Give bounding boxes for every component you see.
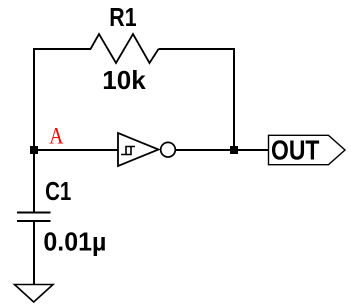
- wire: capacitor bottom plate down to ground: [33, 221, 35, 285]
- port flag OUT (pentagon outline): [269, 135, 346, 164]
- value 0.01µ: [43, 228, 106, 257]
- wire: top horizontal left of resistor: [33, 48, 91, 50]
- label C1: [45, 177, 71, 206]
- resistor R1 (zigzag body): [91, 34, 159, 63]
- label R1: [109, 3, 136, 33]
- junction: node A: [30, 146, 38, 154]
- svg-text:C1: C1: [45, 177, 71, 206]
- node A label: [49, 123, 64, 149]
- wire: bubble to output node and on to OUT flag: [176, 149, 270, 151]
- wire: right vertical (top corner down to output node): [233, 48, 235, 150]
- wire: node A down to capacitor top plate: [33, 150, 35, 213]
- wire: node A to inverter input: [34, 149, 118, 151]
- svg-text:10k: 10k: [102, 65, 146, 95]
- svg-text:A: A: [49, 123, 64, 149]
- output bubble of U1: [161, 142, 176, 157]
- hysteresis symbol inside U1: [121, 147, 135, 155]
- capacitor C1 bottom plate: [17, 220, 51, 222]
- label OUT: [271, 136, 320, 167]
- svg-text:OUT: OUT: [271, 136, 320, 167]
- inverter U1 triangle: [118, 133, 159, 166]
- capacitor C1 top plate: [17, 212, 51, 214]
- value 10k: [102, 65, 146, 95]
- ground symbol: [15, 285, 54, 303]
- svg-text:R1: R1: [109, 3, 136, 33]
- wire: top horizontal right of resistor: [159, 48, 236, 50]
- svg-text:0.01µ: 0.01µ: [43, 228, 106, 257]
- wire: left vertical (top corner down to node A): [33, 48, 35, 150]
- junction: output node: [230, 146, 238, 154]
